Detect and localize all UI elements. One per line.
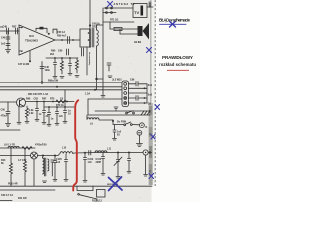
transistor T area wire [0, 101, 17, 103]
antenna line top [104, 7, 133, 9]
bottom oscillator wire row [0, 147, 35, 149]
svg-text:C60: C60 [1, 109, 6, 112]
svg-text:4Ω 8Ω: 4Ω 8Ω [134, 41, 141, 44]
scan top edge mark [149, 2, 152, 8]
blue X antenna [108, 2, 113, 7]
svg-text:C49: C49 [1, 37, 6, 40]
node on slope [48, 33, 50, 35]
main vertical wire right [102, 8, 104, 95]
capacitor x55 drop [54, 156, 56, 161]
capacitor top small [66, 49, 68, 55]
svg-text:PL10 4R: PL10 4R [8, 183, 18, 186]
inductor L8 [8, 146, 19, 148]
x marks on pins [124, 97, 126, 99]
wire Do P3W [113, 120, 124, 125]
second rail [0, 189, 55, 191]
capacitor right of connector [135, 82, 137, 87]
wire from secondary top [97, 25, 104, 30]
pin 5 tick [19, 50, 23, 52]
jack circle [143, 150, 148, 155]
svg-text:TV: TV [134, 10, 139, 15]
ground [53, 76, 57, 78]
wire from secondary bottom down [96, 46, 98, 90]
paper speckle noise [4, 1, 147, 199]
bracket near apex [53, 29, 57, 33]
inductor L9 under box [87, 115, 113, 120]
resistor R72 box [114, 28, 122, 31]
svg-text:do zwrotnicy: do zwrotnicy [88, 52, 91, 66]
svg-text:4700uF/50: 4700uF/50 [35, 144, 47, 147]
capacitor drop x37 [36, 102, 38, 109]
svg-text:C48: C48 [3, 26, 8, 29]
svg-text:470uF: 470uF [1, 115, 8, 118]
left capacitor column wire [7, 31, 9, 49]
vertical wire with note [86, 47, 88, 75]
bar top edge [95, 110, 150, 112]
capacitor C106 [84, 152, 86, 154]
blue X on strike line [170, 21, 176, 27]
indicator circle 1 [140, 123, 145, 128]
scan dashed separation line [154, 0, 156, 186]
mid component row wire [46, 57, 78, 59]
pin 1 tick [19, 27, 23, 29]
capacitor drop 1 [54, 58, 56, 62]
bus line 2 [0, 89, 122, 91]
capacitor drops [48, 107, 50, 112]
pin stubs right [129, 83, 136, 85]
svg-text:ANTENA TV: ANTENA TV [114, 3, 135, 6]
svg-text:IC3: IC3 [29, 34, 34, 38]
switch in bar [126, 112, 128, 114]
wire from pin to C46 [41, 62, 43, 83]
svg-text:C60: C60 [58, 50, 63, 53]
blue annotation group [108, 2, 187, 191]
node tap [89, 24, 91, 26]
svg-text:220P: 220P [96, 161, 102, 164]
lamp circle with X [31, 152, 38, 159]
jack ground [145, 155, 147, 174]
svg-text:3n3: 3n3 [148, 94, 153, 97]
svg-text:2n2: 2n2 [1, 43, 6, 46]
transformer core [91, 28, 93, 47]
svg-text:1.3A: 1.3A [85, 93, 90, 96]
red correction line [73, 100, 78, 190]
inductor L11 [95, 151, 107, 153]
svg-text:L10: L10 [62, 147, 67, 150]
ground under connector [114, 106, 118, 108]
blue X strip lower [149, 174, 154, 179]
blue X right of strip [155, 105, 160, 110]
wire input top-left [0, 30, 19, 32]
small cap mid [107, 62, 111, 64]
transistor Q circle [17, 98, 26, 107]
resistor inline [22, 147, 32, 150]
resistor zigzag 2 [76, 58, 79, 73]
feedback resistor blob [40, 27, 44, 30]
big blue X bottom [109, 177, 123, 191]
node [95, 78, 97, 80]
capacitor right of transformer [51, 159, 54, 161]
svg-text:R11 1W: R11 1W [18, 197, 27, 200]
svg-text:PRAWIDŁOWY: PRAWIDŁOWY [162, 55, 193, 60]
blue X strip low [151, 135, 155, 140]
wire top feed [89, 0, 91, 29]
svg-text:rozkład schematu: rozkład schematu [159, 62, 196, 67]
trimmer capacitor [117, 153, 119, 160]
blue strike line top right [160, 23, 187, 25]
ground [6, 49, 11, 51]
feedback loop wire [36, 28, 47, 33]
node [61, 39, 63, 41]
ground above connector [108, 75, 112, 77]
capacitor C64 [114, 125, 116, 130]
scan fold dark band [149, 103, 153, 185]
svg-text:C63: C63 [34, 98, 39, 101]
speaker wires [103, 21, 134, 23]
node below op-amp [29, 60, 31, 62]
svg-text:1n6: 1n6 [59, 115, 64, 118]
svg-text:R60x/1W: R60x/1W [48, 80, 59, 83]
svg-text:JL3 W31: JL3 W31 [112, 79, 122, 82]
svg-text:R: R [146, 126, 148, 129]
bottom left stub [0, 200, 12, 202]
switch [124, 124, 126, 126]
resistor R60 zigzag [61, 58, 64, 74]
svg-text:BL12: BL12 [96, 200, 103, 203]
transformer bottom left [43, 158, 45, 174]
tiny labels [1, 3, 153, 202]
wire to edge [147, 6, 153, 8]
scan edge gray line top [150, 0, 152, 104]
shield box [88, 99, 150, 115]
svg-text:R57: R57 [12, 26, 17, 29]
inline resistor R70 [56, 100, 66, 103]
svg-text:TR3: TR3 [92, 26, 97, 29]
capacitor C49 [6, 36, 10, 38]
svg-text:1.3k: 1.3k [29, 112, 34, 115]
svg-text:R66: R66 [26, 98, 31, 101]
collector wire [26, 101, 75, 103]
capacitor C110 [102, 153, 104, 157]
capacitor R57 [15, 28, 17, 34]
emitter down [18, 107, 20, 122]
long bottom rail [0, 185, 152, 187]
capacitor drop 2 [69, 58, 71, 63]
TV socket box [133, 4, 147, 18]
ground [136, 143, 142, 145]
svg-text:100n: 100n [45, 69, 51, 72]
red underline [167, 69, 189, 71]
svg-text:C66: C66 [130, 79, 135, 82]
svg-text:C47 2n1M: C47 2n1M [18, 63, 29, 66]
svg-text:BŁĄD w schemacie: BŁĄD w schemacie [159, 18, 191, 23]
svg-text:R59 4u7: R59 4u7 [57, 35, 67, 38]
component box bottom mid [97, 190, 106, 198]
svg-text:R71 1Ω: R71 1Ω [110, 19, 118, 22]
stub right [97, 78, 104, 80]
op-amp pin below wire [29, 51, 31, 61]
output wire [55, 39, 80, 41]
svg-text:C52 0.7 1A: C52 0.7 1A [1, 194, 13, 197]
svg-text:2k2: 2k2 [50, 53, 55, 56]
capacitor drop x44 [43, 102, 45, 111]
svg-text:1n0: 1n0 [88, 161, 93, 164]
indicator circle 2 [137, 130, 142, 135]
collector vertical [146, 84, 148, 103]
resistor 1.6k [26, 106, 29, 121]
bus line 1 [0, 82, 122, 84]
transformer secondary winding [97, 30, 99, 46]
node [72, 39, 74, 41]
node junction on bus [41, 81, 43, 83]
blue X mid left strip [147, 48, 152, 53]
node [112, 120, 114, 122]
svg-text:TDA2003: TDA2003 [25, 39, 38, 43]
svg-text:4.7 1/W: 4.7 1/W [18, 159, 27, 162]
second contact row [103, 12, 116, 14]
svg-text:Do P3W: Do P3W [117, 121, 127, 124]
capacitor mid [128, 153, 130, 159]
wire from lamp down [33, 159, 35, 186]
paper background left scanned area [0, 0, 152, 202]
svg-text:R64 C63 R71 1.3A: R64 C63 R71 1.3A [28, 93, 48, 96]
op-amp U1 triangle [19, 25, 55, 55]
connector JL3 [122, 81, 129, 107]
winding taps [88, 32, 90, 34]
svg-text:R70 1k: R70 1k [56, 104, 64, 107]
ground bottom of vertical [101, 95, 105, 97]
speaker Gl [138, 26, 143, 36]
svg-text:1n0: 1n0 [56, 161, 61, 164]
svg-text:R70: R70 [50, 98, 55, 101]
main wire mid [0, 155, 31, 157]
svg-text:R67: R67 [42, 98, 47, 101]
lower cap row wire [44, 106, 74, 108]
resistor vertical left 1 [10, 148, 12, 163]
svg-text:L8 0.1-?R: L8 0.1-?R [4, 144, 15, 147]
transformer Tr3 primary [80, 29, 90, 47]
svg-text:L11: L11 [107, 148, 112, 151]
capacitor C50 series [67, 37, 69, 44]
resistor vertical left 2 [24, 148, 26, 161]
capacitor C46 [40, 66, 44, 68]
inductor L10 [58, 152, 98, 156]
bottom right tank circuit wire [98, 152, 143, 154]
top-left corner smudge marks [0, 26, 3, 28]
capacitor x66 drop [65, 154, 67, 159]
svg-text:3n3: 3n3 [148, 84, 153, 87]
white right margin [152, 0, 201, 202]
power switch bottom loop [77, 186, 93, 190]
short wire left low [0, 129, 20, 131]
capacitor C60 column [7, 102, 9, 111]
capacitor C48 [6, 28, 8, 34]
